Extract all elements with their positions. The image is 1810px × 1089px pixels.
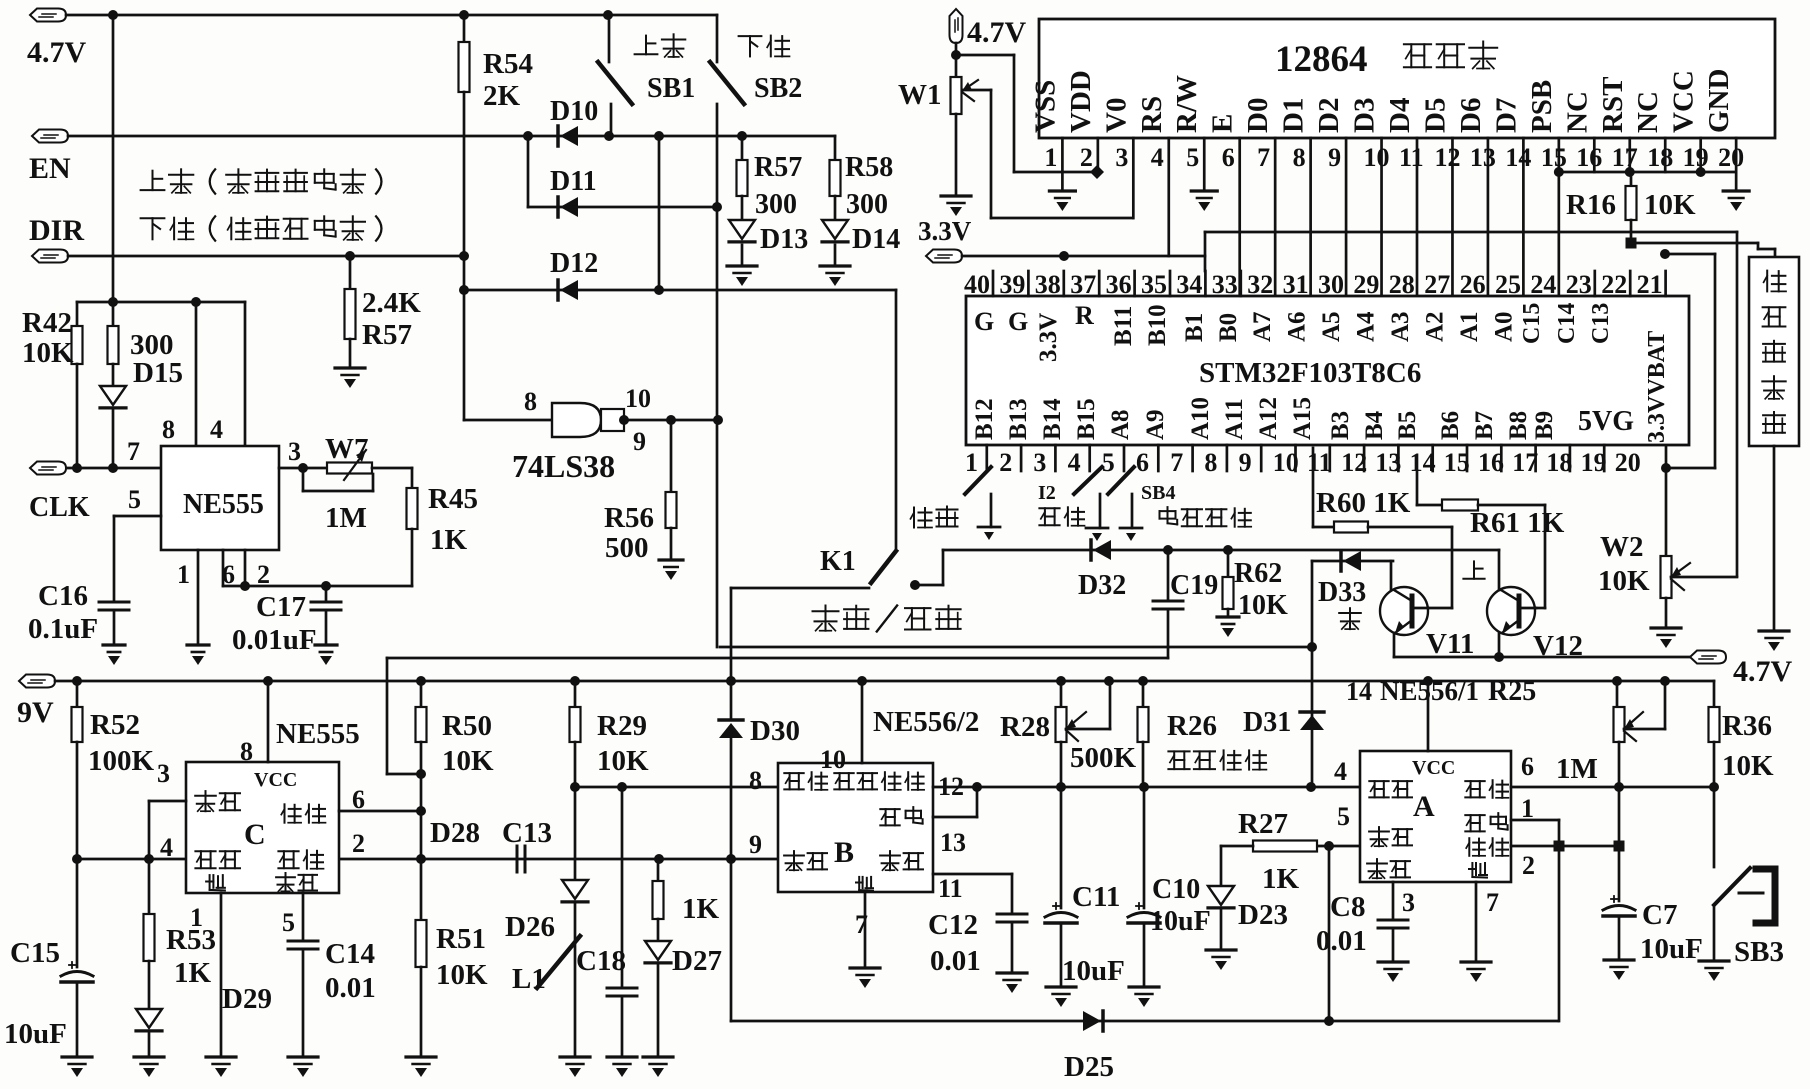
wire pin3 out [279,467,327,470]
svg-text:D15: D15 [133,357,183,389]
svg-text:NC: NC [1561,91,1593,133]
diode D30 [730,681,733,720]
svg-text:3: 3 [1115,143,1128,172]
svg-text:40: 40 [964,270,990,299]
svg-text:27: 27 [1424,270,1450,299]
wire pin8 riser [267,681,270,762]
svg-text:10uF: 10uF [4,1018,67,1050]
wire pin8 riser [195,302,198,446]
svg-text:20: 20 [1615,448,1641,477]
wire pin7 down [1475,882,1478,962]
node 9V flag [19,675,55,688]
svg-text:B1: B1 [1181,313,1208,342]
svg-text:3.3VVBAT: 3.3VVBAT [1644,331,1670,443]
svg-text:R61 1K: R61 1K [1470,507,1565,539]
wire gate output [624,419,717,422]
svg-text:20: 20 [1718,143,1744,172]
svg-text:2: 2 [352,829,365,858]
svg-text:11: 11 [1307,448,1332,477]
svg-text:5: 5 [1186,143,1199,172]
label 上 [1473,561,1475,578]
wire pin11 to C12 [933,873,1012,876]
svg-text:29: 29 [1353,270,1379,299]
wire pin6 pin2 [222,550,225,586]
svg-text:STM32F103T8C6: STM32F103T8C6 [1199,357,1421,389]
switch SB1 [608,15,611,62]
svg-text:11: 11 [938,874,963,903]
svg-text:B3: B3 [1327,411,1354,440]
svg-text:0.1uF: 0.1uF [28,613,98,645]
potentiometer R25 1M [1616,681,1619,707]
svg-text:10: 10 [820,745,846,774]
svg-text:38: 38 [1035,270,1061,299]
svg-text:10K: 10K [22,337,74,369]
svg-text:1K: 1K [430,524,468,556]
svg-text:9: 9 [1239,448,1252,477]
wire box bottom L2 [387,657,1168,660]
wire D31 vertical [1311,561,1314,787]
svg-text:R29: R29 [597,710,647,742]
svg-text:C15: C15 [1519,303,1545,344]
svg-text:D0: D0 [1242,98,1274,133]
wire A pin5 to D25 row [1328,846,1331,1021]
svg-text:D25: D25 [1064,1051,1114,1083]
wire pin1 bracket [1511,819,1559,822]
switch L1 lever [537,936,580,988]
svg-text:R/W: R/W [1171,75,1203,133]
op-amp U-NE556/2 box [778,763,933,892]
svg-text:V11: V11 [1426,628,1474,660]
svg-text:C15: C15 [10,937,60,969]
svg-text:A1: A1 [1456,311,1483,342]
svg-text:A4: A4 [1353,311,1380,342]
svg-text:R26: R26 [1167,710,1217,742]
svg-text:D2: D2 [1313,98,1345,133]
svg-text:1M: 1M [1556,753,1598,785]
svg-text:R28: R28 [1000,711,1050,743]
svg-text:C17: C17 [256,591,306,623]
svg-text:R58: R58 [845,152,893,183]
svg-text:3: 3 [1033,448,1046,477]
diode D10 [560,126,578,146]
capacitor C11 10uF [1060,787,1063,908]
svg-text:10K: 10K [1598,565,1650,597]
ground C8 [1378,960,1408,963]
svg-text:C8: C8 [1330,891,1365,923]
svg-text:NE556/1: NE556/1 [1380,676,1479,706]
resistor R16 10K [1630,172,1633,186]
svg-text:D3: D3 [1349,98,1381,133]
wire bus 232 [1205,231,1737,234]
wire pin14 riser [1427,681,1430,751]
svg-text:DIR: DIR [29,214,84,247]
ground R62 [1217,615,1239,618]
wire SB2 vertical down [716,104,719,647]
STM32 bottom ticks [985,445,988,471]
svg-text:10K: 10K [1238,590,1288,621]
wire top 4.7V rail [66,14,717,17]
resistor R60 1K [1312,448,1315,527]
svg-text:26: 26 [1460,270,1486,299]
svg-text:14: 14 [1505,143,1531,172]
svg-text:23: 23 [1566,270,1592,299]
svg-text:2: 2 [999,448,1012,477]
svg-text:4: 4 [160,833,173,862]
svg-text:10K: 10K [1644,189,1696,221]
svg-text:A: A [1413,790,1435,823]
resistor R50 10K [420,681,423,707]
svg-text:R16: R16 [1566,189,1616,221]
diode D25 [1083,1011,1101,1031]
svg-text:15: 15 [1541,143,1567,172]
diode D14 [822,220,848,239]
svg-text:W7: W7 [325,433,369,465]
svg-text:D28: D28 [430,817,480,849]
wire pin12/13 bracket [933,786,1360,789]
svg-text:D31: D31 [1243,707,1291,738]
label 上升（正转高电平） [152,171,154,190]
svg-text:R27: R27 [1238,808,1288,840]
resistor 300 [112,302,115,326]
transistor V11 [1380,587,1428,635]
wire W1 wiper to V0 [962,89,991,92]
svg-text:10K: 10K [1722,750,1774,782]
ground pin7 A [1461,960,1491,963]
resistor R29 10K [574,681,577,707]
svg-text:C14: C14 [325,938,375,970]
capacitor C18 [621,787,624,988]
svg-text:EN: EN [29,152,71,185]
ground C12 [997,971,1027,974]
resistor R52 100K [76,681,79,707]
svg-text:NE556/2: NE556/2 [873,706,979,738]
resistor R53 1K [148,859,151,914]
resistor 1K + diode D27 [657,859,660,881]
svg-text:VSS: VSS [1029,80,1061,133]
svg-text:E: E [1207,114,1239,133]
svg-text:R54: R54 [483,48,533,80]
svg-text:D30: D30 [750,715,800,747]
svg-text:0.01: 0.01 [930,945,981,977]
svg-text:12864: 12864 [1275,39,1368,80]
svg-text:8: 8 [240,737,253,766]
svg-text:VCC: VCC [254,769,297,791]
svg-text:C18: C18 [576,945,626,977]
svg-text:A5: A5 [1318,311,1345,342]
resistor R57 300 [741,136,744,160]
svg-text:3: 3 [288,437,301,466]
svg-text:33: 33 [1212,270,1238,299]
wire emitter 4.7V line [1394,656,1689,659]
svg-text:GND: GND [1703,69,1735,133]
svg-text:4: 4 [1068,448,1081,477]
svg-text:B12: B12 [971,398,998,440]
svg-text:L1: L1 [512,963,546,995]
potentiometer W7 1M [327,463,372,474]
node EN flag [32,130,68,143]
svg-text:NE555: NE555 [276,718,360,750]
svg-text:7: 7 [1170,448,1183,477]
svg-text:9: 9 [633,427,646,456]
switch K1 [871,551,896,583]
ground D14 [820,264,850,267]
svg-text:13: 13 [940,828,966,857]
svg-text:34: 34 [1176,270,1202,299]
svg-text:0.01: 0.01 [1316,925,1367,957]
svg-text:SB1: SB1 [647,73,695,104]
svg-text:VCC: VCC [1668,70,1700,133]
wire pin3 bracket [149,800,186,803]
svg-text:39: 39 [999,270,1025,299]
svg-text:18: 18 [1546,448,1572,477]
label xia [1339,612,1361,614]
ground W1 [941,194,971,197]
ground C18 [607,1055,637,1058]
diode D31 [1300,710,1324,713]
ground W2 [1651,626,1681,629]
resistor R56 500 [670,420,673,492]
node 4.7V flag right [1690,651,1726,664]
ground D29 [134,1055,164,1058]
STM32 top ticks [992,271,995,296]
wire R25 bottom chain [1618,742,1621,846]
svg-text:C: C [244,818,266,851]
svg-text:NE555: NE555 [183,489,264,520]
svg-text:22: 22 [1601,270,1627,299]
LCD pin tick wires [1061,138,1064,191]
svg-text:C13: C13 [502,817,552,849]
wire pin2/pin9 line [77,858,186,861]
label 手动/自动 [813,610,839,612]
svg-text:D5: D5 [1419,98,1451,133]
svg-text:B7: B7 [1471,411,1498,440]
svg-text:B: B [834,836,854,869]
svg-text:500K: 500K [1070,742,1137,774]
svg-text:D26: D26 [505,911,555,943]
svg-text:19: 19 [1683,143,1709,172]
resistor R51 10K [416,920,427,967]
svg-text:C16: C16 [38,580,88,612]
resistor R58 300 [834,136,837,160]
svg-text:1: 1 [1044,143,1057,172]
svg-text:D23: D23 [1238,899,1288,931]
wire pin6 line [1511,786,1714,789]
wire EN line [68,135,835,138]
ground C11 [1046,985,1076,988]
capacitor C14 0.01 [302,893,305,941]
svg-text:17: 17 [1612,143,1638,172]
svg-text:B15: B15 [1073,398,1100,440]
svg-text:4: 4 [1151,143,1164,172]
svg-text:V0: V0 [1100,98,1132,133]
svg-text:1: 1 [177,560,190,589]
svg-text:1K: 1K [682,893,720,925]
svg-text:18: 18 [1647,143,1673,172]
svg-text:B5: B5 [1394,411,1421,440]
wire W2 wiper riser [1736,232,1739,576]
ground D27 [643,1055,673,1058]
svg-text:7: 7 [1486,888,1499,917]
ground R51 [406,1055,436,1058]
wire pin1 down [197,550,200,645]
ground C14 [288,1055,318,1058]
resistor R42 10K [76,302,79,326]
svg-text:10K: 10K [442,745,494,777]
svg-text:R57: R57 [362,319,412,351]
capacitor C15 10uF [76,859,79,967]
svg-text:D11: D11 [550,166,597,197]
svg-text:6: 6 [1136,448,1149,477]
wire pin2 line [1511,845,1619,848]
svg-text:9: 9 [749,830,762,859]
svg-text:36: 36 [1106,270,1132,299]
svg-text:C14: C14 [1554,303,1580,344]
svg-text:6: 6 [1222,143,1235,172]
box 温度传感器 [1749,257,1799,446]
wire DIR line [68,255,464,258]
wire 4.7V to VDD [955,43,958,55]
wire mid vertical [658,136,661,290]
svg-text:21: 21 [1637,270,1663,299]
resistor R57 2.4K [349,256,352,289]
svg-text:RST: RST [1597,77,1629,133]
svg-text:3: 3 [1402,888,1415,917]
wire temp sensor lead [1773,446,1776,631]
resistor R45 1K [411,468,414,488]
ground R57 [335,366,365,369]
wire V11 collector [1390,561,1393,590]
resistor R62 10K [1227,550,1230,577]
wire LCD pins 15-19 bus [1559,171,1736,174]
svg-text:D7: D7 [1490,98,1522,133]
wire 3.3V rail [962,255,1205,258]
svg-text:1M: 1M [325,502,367,534]
svg-text:C7: C7 [1642,899,1677,931]
label 液晶屏 [1404,43,1431,45]
svg-text:8: 8 [162,415,175,444]
wire pin2 down to D25 row [1558,846,1561,1021]
svg-text:A11: A11 [1221,398,1248,440]
svg-text:VCC: VCC [1412,757,1455,779]
svg-text:D14: D14 [852,224,900,255]
svg-text:SB4: SB4 [1141,482,1175,504]
mcu STM32 box [966,296,1689,445]
svg-text:9: 9 [1328,143,1341,172]
svg-text:A12: A12 [1255,397,1282,440]
op-amp U-NE555 box [161,446,279,550]
diode D32 [1093,540,1111,560]
svg-text:14: 14 [1346,677,1372,706]
ground pin7 B [850,966,880,969]
svg-text:A15: A15 [1289,397,1316,440]
svg-text:RS: RS [1136,96,1168,133]
svg-text:10K: 10K [597,745,649,777]
display 12864 LCD box [1039,19,1775,138]
wire pin7 down [864,892,867,968]
ground SB3 [1699,959,1729,962]
diode D13 [729,220,755,239]
svg-text:G: G [974,307,994,336]
ground D23 [1206,948,1236,951]
switch I2 触发 [1074,467,1102,494]
svg-text:4.7V: 4.7V [27,36,87,69]
svg-text:A3: A3 [1387,311,1414,342]
svg-text:D12: D12 [550,248,598,279]
wire R16 to temp sensor [1631,242,1758,245]
wire pin4 riser [244,302,247,446]
svg-text:1K: 1K [1262,863,1300,895]
switch SB3 [1713,787,1716,867]
svg-text:8: 8 [1204,448,1217,477]
wire pin20 stub [1665,446,1668,556]
svg-text:R52: R52 [90,709,140,741]
wire W7 wiper loop [302,468,305,491]
svg-text:8: 8 [1293,143,1306,172]
svg-text:9V: 9V [17,696,54,729]
wire 9V rail [55,680,1714,683]
potentiometer R28 500K [1060,681,1063,707]
capacitor C8 0.01 [1392,882,1395,920]
potentiometer W1 [955,55,958,77]
ground C16 [103,643,125,646]
svg-text:G: G [1008,307,1028,336]
svg-text:11: 11 [1399,143,1424,172]
ground C10 [1129,985,1159,988]
ground R56 [659,558,683,561]
wire pin5 to C16 [114,515,161,518]
svg-text:3.3V: 3.3V [918,216,972,246]
svg-text:B14: B14 [1039,398,1066,440]
svg-text:5VG: 5VG [1578,406,1634,437]
svg-text:R50: R50 [442,710,492,742]
wire D12 to K1 [895,290,898,551]
svg-text:30: 30 [1318,270,1344,299]
svg-text:12: 12 [1434,143,1460,172]
svg-text:D13: D13 [760,224,808,255]
ground LCD pin5 [1191,189,1217,192]
capacitor C16 0.1uF [99,601,129,604]
svg-text:1: 1 [965,448,978,477]
svg-text:300: 300 [755,189,797,220]
wire top bus of NE555 [77,301,245,304]
wire vertical from 4.7V rail [112,15,115,302]
resistor R27 1K [1317,845,1360,848]
svg-text:37: 37 [1070,270,1096,299]
capacitor C13 [516,846,519,872]
wire V12 collector [1498,550,1501,590]
svg-text:A2: A2 [1422,311,1449,342]
svg-text:4.7V: 4.7V [1733,655,1793,688]
svg-text:8: 8 [749,766,762,795]
svg-text:R60 1K: R60 1K [1316,487,1411,519]
ground pin1 C [206,1055,236,1058]
svg-text:R51: R51 [436,923,486,955]
ground C17 [315,643,337,646]
transistor V12 [1487,587,1535,635]
svg-text:B9: B9 [1531,411,1558,440]
capacitor C19 [1167,550,1170,601]
svg-text:24: 24 [1530,270,1556,299]
svg-text:10K: 10K [436,959,488,991]
svg-text:13: 13 [1470,143,1496,172]
svg-text:35: 35 [1141,270,1167,299]
svg-text:25: 25 [1495,270,1521,299]
svg-text:7: 7 [1257,143,1270,172]
svg-text:D10: D10 [550,96,598,127]
svg-text:10uF: 10uF [1640,933,1703,965]
svg-text:D4: D4 [1384,98,1416,133]
svg-text:5: 5 [128,485,141,514]
